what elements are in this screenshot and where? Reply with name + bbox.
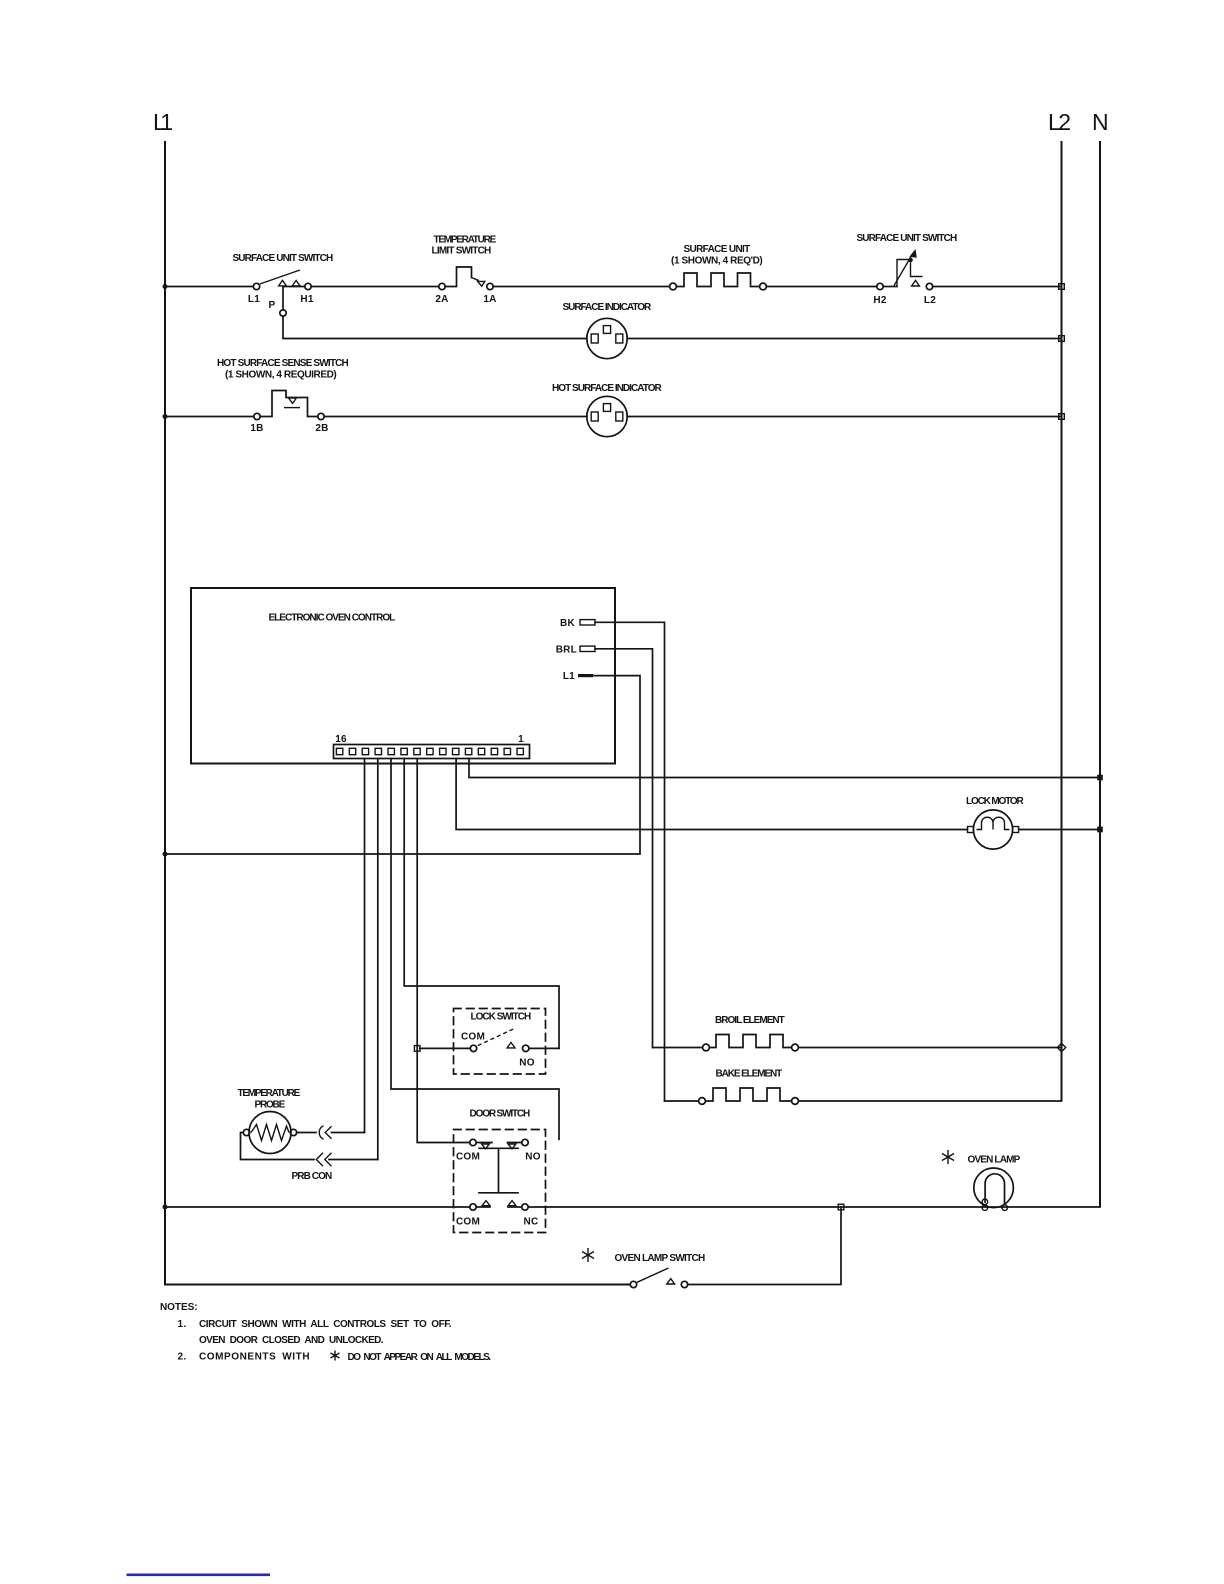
junction diamond on L2 broil row xyxy=(1057,1043,1065,1051)
bake element right terminal xyxy=(792,1098,799,1105)
door switch upper COM terminal xyxy=(470,1139,476,1145)
wire N rail xyxy=(1099,141,1101,1207)
terminal L1 (solid) xyxy=(578,674,593,677)
wire surface indicator to L2 xyxy=(627,338,1061,340)
svg-text:OVEN LAMP SWITCH: OVEN LAMP SWITCH xyxy=(615,1253,706,1264)
asterisk oven lamp switch xyxy=(582,1248,594,1262)
junction on L1 bottom row xyxy=(163,1205,168,1210)
door switch lower COM terminal xyxy=(470,1204,476,1210)
junction on L2 at top row xyxy=(1059,284,1065,290)
wire upper COM stub xyxy=(476,1142,492,1144)
door switch actuator lower bar xyxy=(479,1192,518,1194)
svg-text:P: P xyxy=(269,300,276,311)
svg-text:2B: 2B xyxy=(315,423,328,434)
oven lamp switch arm xyxy=(637,1268,669,1282)
lock motor right terminal xyxy=(1013,827,1019,833)
broil element right terminal xyxy=(792,1044,799,1051)
wire hot surface indicator to L2 xyxy=(627,416,1061,418)
door switch upper NO terminal xyxy=(522,1139,528,1145)
surface unit switch (left) terminal L1 xyxy=(253,283,259,289)
resistor bake element xyxy=(705,1088,791,1101)
svg-text:COM: COM xyxy=(461,1032,485,1043)
strip pin squares xyxy=(336,748,523,754)
hot surface indicator left prong xyxy=(591,412,598,421)
wire EOC L1 to L1 rail xyxy=(165,676,640,854)
junction lock switch COM branch xyxy=(414,1046,420,1052)
connector terminal strip P1 xyxy=(334,745,530,759)
wire BRL to broil element drop xyxy=(595,649,653,1048)
broil element left terminal xyxy=(703,1044,710,1051)
surface unit switch (left) contact triangle at P tap xyxy=(279,280,287,286)
surface unit switch (right) terminal L2 xyxy=(926,283,932,289)
wire bake feed xyxy=(665,1100,699,1102)
wire lamp switch to junction riser xyxy=(688,1207,841,1285)
junction on L2 surface indicator row xyxy=(1059,336,1065,342)
junction on N pin wire xyxy=(1097,775,1103,781)
oven lamp switch contact triangle xyxy=(667,1279,675,1284)
wire bottom connector to pin wire xyxy=(329,1159,378,1161)
svg-text:NOTES:: NOTES: xyxy=(160,1302,198,1313)
terminal BRL xyxy=(580,646,595,651)
surface unit switch (right) step bracket xyxy=(897,260,909,287)
svg-text:L2: L2 xyxy=(1048,109,1071,135)
svg-text:LIMIT SWITCH: LIMIT SWITCH xyxy=(432,246,492,257)
oven lamp left terminal xyxy=(982,1199,988,1205)
temperature limit switch hump xyxy=(445,267,471,287)
wire bottom row L1 to door switch xyxy=(165,1206,470,1208)
wire upper NO stub xyxy=(508,1142,522,1144)
surface unit switch (right) lower bracket xyxy=(911,262,923,276)
door switch upper contact triangle right xyxy=(508,1144,516,1149)
wire probe right lead to connector xyxy=(297,1132,316,1134)
wire lock NO to riser xyxy=(529,1047,559,1049)
wire pin to N rail xyxy=(469,759,1100,778)
surface unit switch (right) pivot dot xyxy=(908,258,913,263)
svg-text:COM: COM xyxy=(456,1152,480,1163)
temperature probe body xyxy=(249,1112,291,1154)
hot surface sense switch terminal 2B xyxy=(318,413,324,419)
resistor surface unit element xyxy=(676,273,759,287)
svg-text:PRB CON: PRB CON xyxy=(292,1171,333,1182)
junction on L1 at top row xyxy=(163,284,168,289)
door switch lower contact triangle left xyxy=(482,1201,490,1206)
svg-text:1B: 1B xyxy=(250,423,263,434)
surface unit switch (left) terminal H1 xyxy=(305,283,311,289)
bake element left terminal xyxy=(699,1098,706,1105)
wire 1A to surface unit xyxy=(493,286,669,288)
svg-text:1A: 1A xyxy=(483,294,496,305)
surface unit switch (left) contact triangle xyxy=(292,280,300,286)
temperature probe left terminal xyxy=(243,1129,249,1135)
temperature limit switch contact triangle xyxy=(478,281,485,286)
wire BK to bake element drop xyxy=(595,622,665,1101)
temperature probe resistor zigzag xyxy=(251,1125,289,1141)
temperature limit switch terminal 2A xyxy=(439,283,445,289)
svg-text:CIRCUIT SHOWN WITH ALL CONTROL: CIRCUIT SHOWN WITH ALL CONTROLS SET TO O… xyxy=(199,1319,452,1330)
junction on L1 at EOC row xyxy=(163,852,168,857)
hot surface indicator top prong xyxy=(603,404,610,412)
wire pin to temperature probe (top) xyxy=(364,759,366,1133)
wire H2 to switch body xyxy=(883,286,897,288)
oven lamp switch right terminal xyxy=(681,1281,687,1287)
svg-text:HOT SURFACE INDICATOR: HOT SURFACE INDICATOR xyxy=(552,383,663,394)
hot surface sense switch body xyxy=(260,391,318,417)
svg-text:LOCK SWITCH: LOCK SWITCH xyxy=(471,1012,532,1023)
wire broil feed xyxy=(653,1047,703,1049)
svg-text:L1: L1 xyxy=(248,294,260,305)
svg-text:N: N xyxy=(1092,109,1109,135)
resistor broil element xyxy=(709,1035,791,1048)
svg-text:DO NOT APPEAR ON ALL MODELS.: DO NOT APPEAR ON ALL MODELS. xyxy=(348,1352,492,1363)
wire lower COM stub xyxy=(476,1206,490,1208)
hot surface indicator right prong xyxy=(616,412,623,421)
hot surface sense switch contact bar xyxy=(284,407,300,409)
svg-text:2.: 2. xyxy=(178,1352,187,1363)
svg-text:NC: NC xyxy=(524,1217,539,1228)
wire surface unit to H2 xyxy=(766,286,876,288)
svg-text:BRL: BRL xyxy=(556,645,577,656)
svg-text:SURFACE UNIT: SURFACE UNIT xyxy=(684,244,751,255)
surface unit switch (right) contact triangle xyxy=(912,280,920,286)
svg-text:BK: BK xyxy=(560,618,575,629)
svg-text:1.: 1. xyxy=(178,1319,187,1330)
wire probe left lead loop xyxy=(241,1133,315,1160)
temperature probe right terminal xyxy=(290,1129,296,1135)
wire pin to door switch NO xyxy=(391,759,559,1140)
wire L2 rail xyxy=(1061,141,1063,1101)
lock switch NO terminal xyxy=(523,1045,529,1051)
svg-text:TEMPERATURE: TEMPERATURE xyxy=(434,235,497,246)
junction on N lock motor row xyxy=(1097,827,1103,833)
junction oven lamp switch branch xyxy=(838,1204,844,1210)
wire pin to lock switch COM and door switch COM xyxy=(417,759,470,1143)
surface indicator right prong xyxy=(616,334,623,343)
asterisk note 2 xyxy=(331,1351,340,1361)
surface indicator left prong xyxy=(591,334,598,343)
wire H1 to temperature limit switch xyxy=(311,286,439,288)
wire junction to lock COM xyxy=(420,1047,471,1049)
svg-text:DOOR SWITCH: DOOR SWITCH xyxy=(470,1109,531,1120)
wire bake to L2 xyxy=(798,1100,1061,1102)
svg-text:NO: NO xyxy=(519,1058,535,1069)
terminal BK xyxy=(580,620,595,625)
wire bottom row to oven lamp and N xyxy=(528,1206,1100,1208)
surface unit element left terminal xyxy=(670,283,677,290)
asterisk oven lamp xyxy=(942,1150,954,1164)
wire top row L1 to surface unit switch xyxy=(165,286,253,288)
oven lamp right terminal xyxy=(1002,1205,1008,1211)
wire pin to lock motor xyxy=(456,759,967,830)
lock motor left terminal xyxy=(968,827,974,833)
hot surface sense switch terminal 1B xyxy=(254,413,260,419)
wire connector to pin wire xyxy=(332,1132,365,1134)
wire L2 terminal to L2 rail xyxy=(933,286,1062,288)
wire lower NC stub xyxy=(508,1206,522,1208)
svg-text:L1: L1 xyxy=(563,671,575,682)
probe connector PRB CON top halves xyxy=(319,1126,323,1139)
lamp oven lamp body xyxy=(974,1168,1014,1208)
svg-text:16: 16 xyxy=(335,734,347,745)
wire P to surface indicator row xyxy=(283,316,587,338)
door switch S2 dashed box xyxy=(454,1130,546,1233)
surface unit switch (right) terminal H2 xyxy=(877,283,883,289)
svg-text:TEMPERATURE: TEMPERATURE xyxy=(238,1088,301,1099)
door switch actuator plunger xyxy=(498,1148,500,1193)
electronic oven control U1 box xyxy=(191,588,615,764)
door switch lower contact triangle right xyxy=(508,1201,516,1206)
lamp surface indicator body xyxy=(587,318,627,358)
lock switch COM terminal xyxy=(470,1045,476,1051)
wire P tap vertical xyxy=(282,287,284,310)
svg-text:1: 1 xyxy=(518,734,524,745)
oven lamp switch left terminal xyxy=(630,1281,636,1287)
svg-text:SURFACE UNIT SWITCH: SURFACE UNIT SWITCH xyxy=(233,253,334,264)
lamp hot surface indicator body xyxy=(587,396,627,436)
svg-text:L1: L1 xyxy=(153,109,173,135)
svg-text:BAKE ELEMENT: BAKE ELEMENT xyxy=(716,1069,783,1080)
oven lamp filament loop xyxy=(985,1174,1004,1205)
surface unit switch (right) arm xyxy=(894,254,913,286)
wire broil to L2 xyxy=(798,1047,1061,1049)
lock switch arm (dashed) xyxy=(478,1028,516,1046)
footer blue underline xyxy=(127,1574,271,1577)
svg-text:OVEN LAMP: OVEN LAMP xyxy=(968,1155,1021,1166)
svg-text:NO: NO xyxy=(525,1152,541,1163)
wire pin to probe return xyxy=(377,759,379,1160)
lock switch S1 dashed box xyxy=(454,1009,546,1075)
wire under contacts to H1 xyxy=(283,286,305,288)
temperature limit switch terminal 1A xyxy=(487,283,493,289)
wire lock motor to N xyxy=(1019,829,1100,831)
hot surface sense switch contact triangle xyxy=(289,398,297,403)
wire L1 to 1B xyxy=(165,416,254,418)
svg-text:BROIL ELEMENT: BROIL ELEMENT xyxy=(715,1015,785,1026)
svg-text:(1 SHOWN, 4 REQUIRED): (1 SHOWN, 4 REQUIRED) xyxy=(225,370,337,381)
svg-text:ELECTRONIC OVEN CONTROL: ELECTRONIC OVEN CONTROL xyxy=(269,613,396,624)
svg-text:PROBE: PROBE xyxy=(255,1100,286,1111)
surface unit element right terminal xyxy=(760,283,767,290)
wire 2B to hot surface indicator xyxy=(324,416,587,418)
svg-text:(1 SHOWN, 4 REQ'D): (1 SHOWN, 4 REQ'D) xyxy=(671,256,763,267)
svg-text:H1: H1 xyxy=(300,294,313,305)
svg-text:2A: 2A xyxy=(435,294,448,305)
svg-text:OVEN DOOR CLOSED AND UNLOCKED.: OVEN DOOR CLOSED AND UNLOCKED. xyxy=(199,1335,384,1346)
wire L1 rail xyxy=(165,141,630,1285)
door switch upper contact triangle left xyxy=(482,1144,490,1149)
terminal P xyxy=(280,310,286,316)
svg-text:COMPONENTS WITH: COMPONENTS WITH xyxy=(199,1352,310,1363)
lock switch contact triangle xyxy=(507,1042,515,1048)
svg-text:HOT SURFACE SENSE SWITCH: HOT SURFACE SENSE SWITCH xyxy=(217,358,349,369)
svg-text:LOCK MOTOR: LOCK MOTOR xyxy=(966,796,1025,807)
svg-text:H2: H2 xyxy=(873,295,886,306)
motor lock motor body xyxy=(973,810,1012,849)
junction on L2 hot surface row xyxy=(1059,414,1065,420)
svg-text:COM: COM xyxy=(456,1217,480,1228)
wire pin to lock switch NO xyxy=(404,759,559,1049)
svg-text:SURFACE UNIT SWITCH: SURFACE UNIT SWITCH xyxy=(857,233,958,244)
lock motor winding xyxy=(977,817,1010,829)
surface indicator top prong xyxy=(603,326,610,334)
probe connector PRB CON bottom halves xyxy=(316,1153,323,1166)
svg-text:L2: L2 xyxy=(924,295,936,306)
surface unit switch (right) arrowhead xyxy=(909,249,917,258)
svg-text:SURFACE INDICATOR: SURFACE INDICATOR xyxy=(563,302,653,313)
door switch lower NC terminal xyxy=(522,1204,528,1210)
surface unit switch (left) arm xyxy=(260,270,300,284)
temperature limit switch movable contact xyxy=(472,278,480,281)
junction on L1 hot surface row xyxy=(163,414,168,419)
door switch actuator upper bar xyxy=(479,1147,518,1149)
